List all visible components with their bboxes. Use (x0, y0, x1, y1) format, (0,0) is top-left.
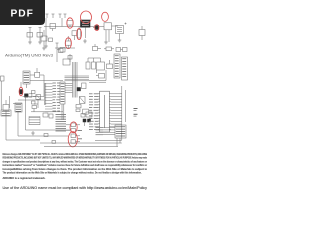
svg-text:The product information on the: The product information on the Web Site … (3, 172, 142, 175)
annotation ellipse C (fuse F1) (77, 28, 82, 39)
annotation ellipse F (transistor T1) (95, 25, 99, 31)
diode D2 (66, 36, 72, 48)
connector rows (1, 110, 11, 116)
diode D1 (67, 21, 73, 27)
connector JP3 (15, 103, 22, 112)
svg-text:changes to specifications and: changes to specifications and product de… (3, 160, 148, 163)
svg-text:instructions marked "reserved": instructions marked "reserved" or "undef… (3, 164, 148, 167)
capacitor C9 (86, 58, 90, 69)
wire (10, 96, 45, 108)
wire (31, 111, 63, 113)
PDF badge (0, 0, 45, 25)
disclaimer paragraph (3, 153, 148, 180)
ground (118, 38, 122, 42)
capacitor C13 (3, 100, 9, 116)
ground (83, 39, 87, 43)
component box (81, 112, 92, 126)
resistor R1 (104, 47, 114, 51)
annotation ellipse B (diode D1) (67, 18, 73, 28)
svg-text:ARDUINO is a registered tradem: ARDUINO is a registered trademark. (3, 177, 46, 180)
crystal Q2 (33, 95, 41, 100)
capacitor C3 (93, 44, 102, 51)
wire bus (63, 59, 106, 98)
regulator U5 (99, 23, 118, 42)
annotation ellipse E (regulator input) (102, 12, 109, 21)
resistor R4 (83, 109, 89, 114)
wire (6, 97, 40, 140)
capacitor C12 (82, 83, 86, 89)
resistor R2 (107, 60, 113, 69)
left net labels (45, 83, 60, 112)
fuse F1 (78, 27, 81, 39)
wire (44, 27, 48, 49)
power rail tees (46, 14, 67, 18)
annotation ellipse A (power jack) (81, 11, 92, 23)
ground (38, 40, 42, 44)
power jack X1 (81, 20, 91, 38)
LED labels (78, 131, 82, 139)
capacitor C7 (139, 26, 145, 40)
component bits (76, 105, 81, 112)
op-amp U1 box (35, 68, 44, 77)
crystal Q1 (79, 97, 85, 104)
wire (21, 75, 35, 88)
transistor T1 (93, 26, 99, 30)
svg-text:Use of the ARDUINO name must b: Use of the ARDUINO name must be complian… (3, 186, 148, 190)
transistor T2 (20, 90, 23, 95)
resistor RN2 boxes (66, 123, 80, 143)
capacitor C10 (92, 58, 96, 69)
supply node +5V (29, 28, 42, 41)
capacitor C2 (72, 31, 77, 40)
annotation ellipse G (transistor T2) (19, 87, 23, 96)
component box (96, 74, 105, 79)
resistor network RN1 (29, 113, 53, 125)
svg-text:PDF: PDF (11, 9, 34, 20)
resistor R3 (25, 94, 32, 97)
wire (1, 75, 64, 110)
connector X2 (60, 82, 65, 120)
capacitor C6 (116, 23, 127, 39)
wire (44, 18, 99, 27)
annotation ellipse I (LEDs lower) (68, 132, 77, 147)
capacitor C5 (27, 33, 43, 38)
crystal Y1 (88, 58, 105, 73)
MCU U3 (ATmega328) (98, 91, 110, 132)
MCU left pin labels (89, 94, 98, 130)
connector AD (115, 125, 126, 138)
net label block (56, 115, 67, 131)
ground (42, 46, 46, 50)
annotation ellipse H (LEDs) (70, 122, 77, 133)
svg-text:REGARDING PRODUCTS, INCLUDING: REGARDING PRODUCTS, INCLUDING BUT NOT LI… (3, 157, 148, 160)
svg-text:Arduino(TM) UNO Rev3: Arduino(TM) UNO Rev3 (5, 53, 53, 57)
wire fan to right bus (111, 86, 126, 140)
component bits (32, 99, 38, 112)
capacitor C1 (41, 24, 56, 47)
wire (96, 128, 116, 135)
ground (28, 40, 32, 44)
capacitor C4 (116, 48, 127, 52)
connector IOH (122, 57, 128, 80)
node +5V column (55, 43, 75, 62)
annotation ellipse D (diode D2) (65, 38, 71, 49)
connector IOL (114, 54, 120, 78)
capacitor C11 (32, 91, 36, 105)
dark component (77, 88, 81, 91)
wire (18, 130, 122, 147)
component bits bottom (31, 131, 55, 143)
ground (104, 40, 108, 44)
svg-text:Reference Designs ARE PROVIDED: Reference Designs ARE PROVIDED "AS IS" A… (3, 153, 148, 156)
svg-text:incompatibilities arising from: incompatibilities arising from future ch… (3, 168, 148, 171)
connector JP2 (23, 71, 30, 84)
analog labels (134, 109, 138, 117)
